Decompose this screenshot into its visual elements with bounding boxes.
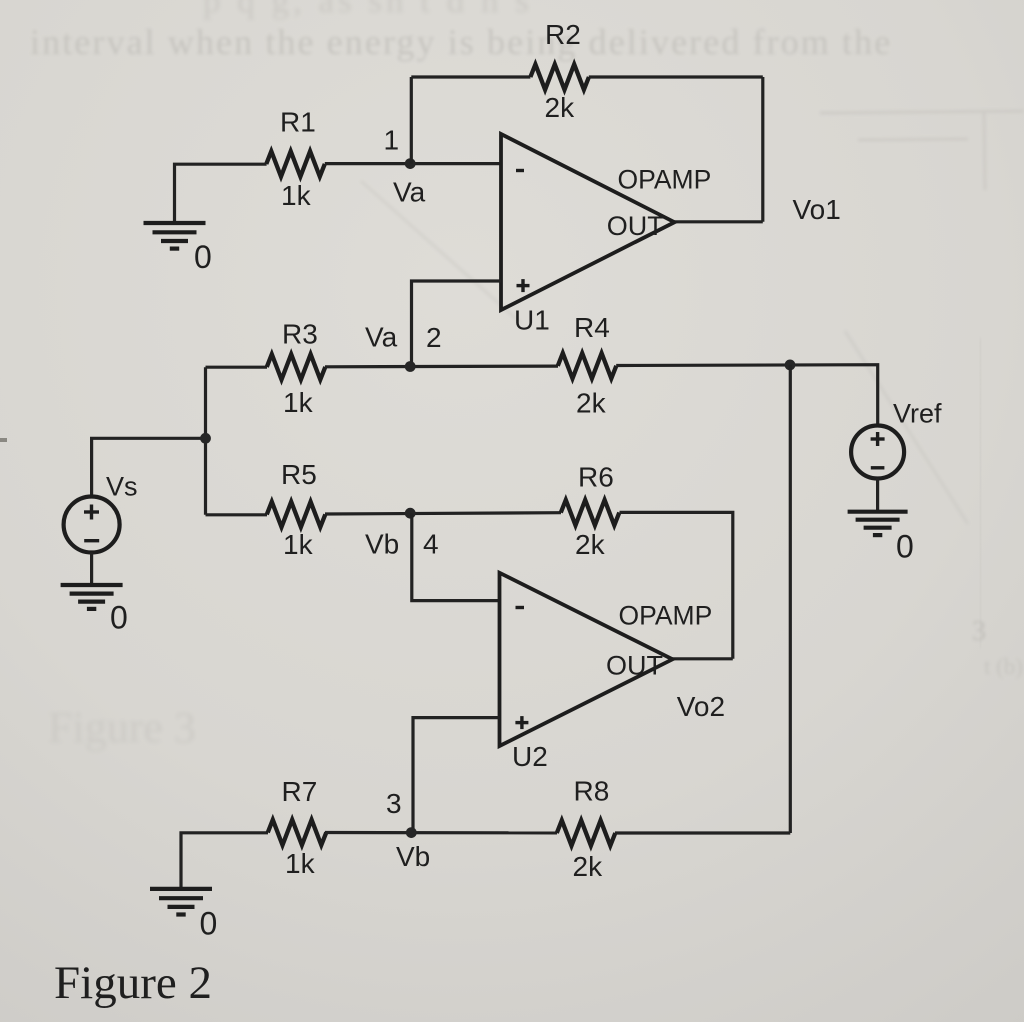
node 2 junction dot (Va) xyxy=(405,361,416,372)
svg-text:OPAMP: OPAMP xyxy=(619,601,713,631)
label R1 xyxy=(280,107,316,138)
svg-text:1k: 1k xyxy=(283,529,314,560)
wire: R6 right lead to feedback drop xyxy=(620,512,733,658)
label 2k (R8) xyxy=(573,851,604,882)
faint bleed-through text line: interval when the energy is being delivered from the xyxy=(30,22,892,62)
label U2 xyxy=(512,741,548,772)
ground (R1 input, net 0) xyxy=(144,223,206,249)
wire: feedback top row right of R2 xyxy=(589,75,763,78)
wire: long right column down to R8 xyxy=(789,365,792,833)
label 2k (R4) xyxy=(576,388,607,419)
junction dot R4/Vref/feedback column xyxy=(785,360,796,371)
svg-text:OUT: OUT xyxy=(607,211,664,241)
op-amp U2 xyxy=(500,573,673,746)
svg-text:0: 0 xyxy=(194,239,212,275)
svg-text:2k: 2k xyxy=(575,529,606,560)
label 2 (node) xyxy=(426,322,442,353)
svg-text:Vs: Vs xyxy=(106,471,138,501)
caption Figure 2 xyxy=(54,957,212,1009)
svg-text:U2: U2 xyxy=(512,741,548,772)
wire: R1 to U1 inverting input (node 1 / Va) xyxy=(325,162,501,165)
svg-text:t (b): t (b) xyxy=(984,654,1023,679)
svg-text:R8: R8 xyxy=(574,776,610,807)
svg-text:Figure 3: Figure 3 xyxy=(48,703,196,752)
wire: feedback top row left of R2 xyxy=(411,75,530,78)
svg-text:p q g, as sh t d h s: p q g, as sh t d h s xyxy=(203,0,533,20)
ground (below Vref, net 0) xyxy=(848,512,908,535)
wire: R5 left lead xyxy=(206,513,268,516)
faint vertical bleed-through line (right edge) xyxy=(980,338,981,648)
label OUT (U1) xyxy=(607,211,664,241)
svg-text:0: 0 xyxy=(896,529,914,565)
label Vs xyxy=(106,471,138,501)
wire: R4 to Vref top elbow xyxy=(616,365,878,426)
label 1 (node) xyxy=(384,125,400,156)
svg-text:2k: 2k xyxy=(573,851,604,882)
label 0 (R7 ground) xyxy=(200,906,218,942)
label Vb (node 4) xyxy=(365,529,399,560)
svg-text:U1: U1 xyxy=(514,304,550,335)
wire: node 4 down to U2 inverting input xyxy=(412,513,500,600)
label 3 (node) xyxy=(386,788,402,819)
label R4 xyxy=(574,312,610,343)
svg-text:2k: 2k xyxy=(576,388,607,419)
svg-text:R6: R6 xyxy=(578,462,614,493)
svg-text:1k: 1k xyxy=(283,387,314,418)
label R7 xyxy=(282,776,318,807)
svg-text:1: 1 xyxy=(384,125,400,156)
wire: R3 left elbow down to R5 (with Vs junction) xyxy=(204,367,207,515)
svg-text:R4: R4 xyxy=(574,312,610,343)
faint bleed-through text: Figure 3 ghost xyxy=(48,703,196,752)
ground (below Vs, net 0) xyxy=(61,585,123,609)
label Vo2 xyxy=(677,691,725,722)
resistor R7 xyxy=(268,820,327,845)
label OPAMP (U1) xyxy=(618,164,712,194)
label Va (node 1) xyxy=(393,177,426,208)
wire: ground stub to R1 left xyxy=(175,164,267,223)
label 4 (node) xyxy=(423,529,439,560)
svg-text:3: 3 xyxy=(386,788,402,819)
label Vref xyxy=(893,398,942,428)
label R3 xyxy=(282,319,318,350)
node 3 junction dot (Vb) xyxy=(406,827,417,838)
label R2 xyxy=(545,19,581,50)
resistor R1 xyxy=(266,151,325,176)
resistor R6 xyxy=(561,500,620,525)
svg-text:Va: Va xyxy=(365,322,398,353)
label OPAMP (U2) xyxy=(619,601,713,631)
svg-text:OPAMP: OPAMP xyxy=(618,164,712,194)
resistor R3 xyxy=(267,354,326,379)
label 1k (R1) xyxy=(281,180,312,211)
faint bleed-through table lines (top right) xyxy=(820,111,1024,190)
wire: U2 output to feedback xyxy=(672,657,733,660)
wire: Vref to ground xyxy=(876,479,879,512)
node 4 junction dot (Vb) xyxy=(405,508,416,519)
resistor R8 xyxy=(557,820,616,845)
svg-text:interval when the energy is be: interval when the energy is being delive… xyxy=(30,22,892,62)
svg-text:2: 2 xyxy=(426,322,442,353)
label 1k (R3) xyxy=(283,387,314,418)
label Vo1 xyxy=(793,194,841,225)
junction dot at Vs branch xyxy=(200,433,211,444)
label U1 xyxy=(514,304,550,335)
svg-text:0: 0 xyxy=(110,600,128,636)
svg-text:Va: Va xyxy=(393,177,426,208)
ground (R7 input, net 0) xyxy=(150,889,212,915)
label OUT (U2) xyxy=(606,651,663,681)
svg-text:Vb: Vb xyxy=(396,841,430,872)
svg-text:OUT: OUT xyxy=(606,651,663,681)
wire: R5 to node 4 to R6 xyxy=(325,513,561,514)
wire: R3 to node 2 to R4 xyxy=(325,365,558,369)
wire: R8 right lead to right column xyxy=(615,831,790,834)
wire: R3 left lead xyxy=(206,366,268,369)
wire: node 1 up to feedback row xyxy=(410,77,413,164)
wire: U1 non-inverting input from node 2 xyxy=(412,281,502,367)
faint crease scratches xyxy=(361,181,968,524)
svg-text:R5: R5 xyxy=(281,459,317,490)
label R6 xyxy=(578,462,614,493)
label R8 xyxy=(574,776,610,807)
wire: feedback right drop to U1 output xyxy=(761,77,764,222)
label 1k (R5) xyxy=(283,529,314,560)
label 0 (R1 ground) xyxy=(194,239,212,275)
resistor R5 xyxy=(267,502,326,527)
label 0 (Vref ground) xyxy=(896,529,914,565)
label Vb (node 3) xyxy=(396,841,430,872)
resistor R4 xyxy=(558,353,617,378)
voltage source Vref xyxy=(851,426,904,479)
label 2k (R6) xyxy=(575,529,606,560)
wire: Vs junction branch xyxy=(92,438,206,496)
label R5 xyxy=(281,459,317,490)
faint ghost marks right edge xyxy=(972,616,1023,679)
svg-text:R7: R7 xyxy=(282,776,318,807)
svg-text:Vref: Vref xyxy=(893,398,942,428)
small dark mark left edge xyxy=(0,438,7,442)
wire: ground stub to R7 left xyxy=(181,833,268,889)
svg-text:Figure 2: Figure 2 xyxy=(54,957,212,1009)
svg-text:R3: R3 xyxy=(282,319,318,350)
svg-text:4: 4 xyxy=(423,529,439,560)
wire: U2 non-inverting input from node 3 xyxy=(413,718,500,833)
label 1k (R7) xyxy=(285,848,316,879)
svg-text:Vb: Vb xyxy=(365,529,399,560)
wire: R7 to node 3 to R8 xyxy=(325,831,557,835)
svg-text:Vo2: Vo2 xyxy=(677,691,725,722)
voltage source Vs xyxy=(64,497,120,553)
svg-text:R2: R2 xyxy=(545,19,581,50)
svg-text:1k: 1k xyxy=(285,848,316,879)
wire: U1 output to feedback xyxy=(675,220,763,223)
label Va (node 2) xyxy=(365,322,398,353)
svg-text:Vo1: Vo1 xyxy=(793,194,841,225)
svg-text:2k: 2k xyxy=(545,92,576,123)
faint bleed-through text top line fragment xyxy=(203,0,533,20)
resistor R2 xyxy=(530,64,589,89)
svg-text:R1: R1 xyxy=(280,107,316,138)
svg-text:0: 0 xyxy=(200,906,218,942)
label 0 (Vs ground) xyxy=(110,600,128,636)
svg-text:1k: 1k xyxy=(281,180,312,211)
node 1 junction dot (Va) xyxy=(405,158,416,169)
op-amp U1 xyxy=(501,134,675,310)
label 2k (R2) xyxy=(545,92,576,123)
wire: Vs to ground xyxy=(90,553,93,586)
svg-text:3: 3 xyxy=(972,616,986,647)
